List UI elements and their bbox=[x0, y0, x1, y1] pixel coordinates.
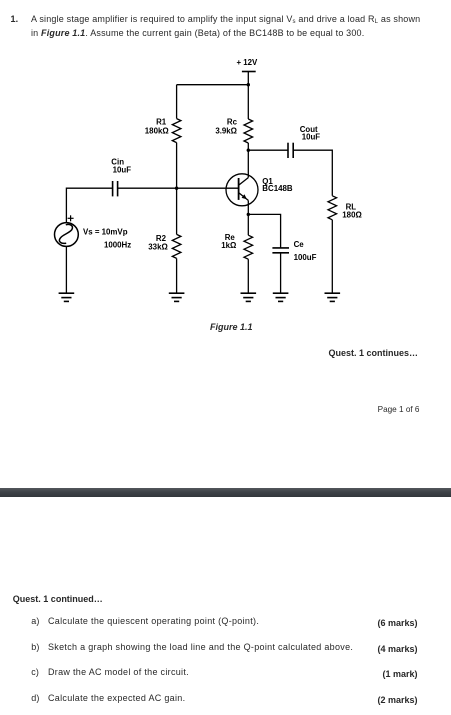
junction emitter node bbox=[247, 213, 250, 216]
svg-text:1000Hz: 1000Hz bbox=[104, 241, 131, 250]
wire base node to Q1 base bbox=[177, 187, 239, 189]
wire supply to rail bbox=[247, 72, 249, 85]
wire Re to ground bbox=[247, 259, 249, 293]
transistor Q1 bbox=[226, 174, 258, 206]
ground Vs bbox=[59, 293, 75, 301]
wire Vs to ground bbox=[65, 246, 67, 293]
wire Vs to Cin bbox=[66, 188, 112, 222]
svg-text:Rc: Rc bbox=[227, 118, 238, 127]
item a bbox=[31, 614, 39, 628]
svg-text:10uF: 10uF bbox=[113, 165, 132, 174]
resistor RL bbox=[328, 196, 337, 220]
wire top rail bbox=[177, 84, 249, 86]
resistor R1 bbox=[172, 119, 181, 143]
wire RL to ground bbox=[331, 220, 333, 293]
wire collector node to Cout bbox=[248, 149, 288, 151]
svg-text:10uF: 10uF bbox=[302, 133, 321, 142]
svg-text:Ce: Ce bbox=[294, 240, 305, 249]
wire emitter node to Re bbox=[247, 214, 249, 235]
wire rail to R1 bbox=[176, 85, 178, 119]
svg-text:180Ω: 180Ω bbox=[342, 211, 362, 220]
wire base node to R2 bbox=[176, 188, 178, 234]
svg-text:R1: R1 bbox=[156, 118, 167, 127]
item d bbox=[31, 691, 39, 705]
wire Rc to collector node bbox=[247, 143, 249, 150]
capacitor Cin bbox=[113, 181, 118, 196]
resistor R2 bbox=[172, 234, 181, 258]
capacitor Ce bbox=[272, 248, 289, 253]
resistor Re bbox=[244, 235, 253, 259]
question paragraph bbox=[11, 12, 19, 26]
svg-text:3.9kΩ: 3.9kΩ bbox=[215, 126, 237, 135]
junction top rail bbox=[247, 83, 250, 86]
resistor Rc bbox=[244, 119, 253, 143]
wire Ce to ground bbox=[280, 253, 282, 293]
svg-text:100uF: 100uF bbox=[294, 253, 317, 262]
wire Q1 emitter bbox=[247, 200, 249, 214]
quest continued heading bbox=[13, 594, 103, 604]
svg-text:33kΩ: 33kΩ bbox=[148, 243, 168, 252]
power supply bar bbox=[242, 71, 256, 73]
svg-text:BC148B: BC148B bbox=[262, 184, 293, 193]
wire collector node to Q1 bbox=[247, 150, 249, 177]
junction collector node bbox=[247, 149, 250, 152]
page number bbox=[300, 405, 420, 414]
wire R1 to base node bbox=[176, 143, 178, 189]
quest continues note bbox=[260, 348, 418, 358]
item b bbox=[31, 640, 39, 654]
svg-text:Vs = 10mVp: Vs = 10mVp bbox=[83, 227, 128, 236]
wire R2 to ground bbox=[176, 258, 178, 293]
ground RL bbox=[325, 293, 341, 301]
svg-text:1kΩ: 1kΩ bbox=[221, 241, 236, 250]
source Vs bbox=[55, 223, 79, 247]
wire rail to Rc bbox=[247, 85, 249, 119]
capacitor Cout bbox=[288, 143, 293, 158]
item c bbox=[31, 665, 39, 679]
svg-text:180kΩ: 180kΩ bbox=[145, 126, 169, 135]
ground Re bbox=[241, 293, 257, 301]
label + polarity bbox=[68, 215, 74, 221]
junction base node bbox=[175, 187, 178, 190]
wire emitter node to Ce bbox=[248, 214, 280, 248]
wire Cout to RL bbox=[293, 150, 332, 196]
ground Ce bbox=[273, 293, 289, 301]
ground R2 bbox=[169, 293, 185, 301]
page separator bar bbox=[0, 488, 451, 497]
figure caption bbox=[210, 322, 253, 332]
wire Cin to base node bbox=[118, 187, 177, 189]
svg-text:+ 12V: + 12V bbox=[236, 58, 258, 67]
